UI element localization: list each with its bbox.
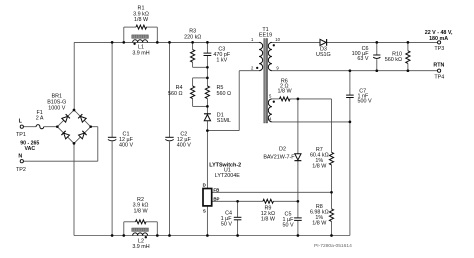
svg-text:560 kΩ: 560 kΩ [385,57,402,63]
svg-text:3.9 mH: 3.9 mH [132,50,149,56]
svg-text:D: D [203,183,206,188]
svg-text:N: N [18,153,22,159]
svg-text:400 V: 400 V [177,143,191,149]
svg-text:2 A: 2 A [36,116,44,122]
svg-text:S: S [203,209,206,214]
svg-text:BP: BP [213,196,219,201]
svg-text:400 V: 400 V [119,143,133,149]
svg-text:1/8 W: 1/8 W [312,164,327,170]
svg-text:1 kV: 1 kV [216,58,227,64]
svg-text:TP2: TP2 [16,167,26,173]
svg-text:VAC: VAC [25,146,36,152]
svg-text:560 Ω: 560 Ω [217,91,232,97]
svg-text:1000 V: 1000 V [48,106,65,112]
svg-text:BAV21W-7-F: BAV21W-7-F [263,154,295,160]
svg-text:BR1: BR1 [52,93,63,99]
svg-text:PI-7280a-051614: PI-7280a-051614 [314,243,352,249]
svg-text:1/8 W: 1/8 W [261,217,276,223]
svg-text:10: 10 [275,37,280,42]
svg-text:D2: D2 [279,147,286,153]
svg-text:560 Ω: 560 Ω [168,91,183,97]
svg-text:1/8 W: 1/8 W [133,208,148,214]
svg-text:180 mA: 180 mA [429,36,448,42]
svg-text:1/8 W: 1/8 W [278,89,293,95]
svg-text:LYT2004E: LYT2004E [215,173,240,179]
svg-text:TP1: TP1 [16,132,26,138]
svg-text:1/8 W: 1/8 W [134,17,149,23]
svg-text:EE19: EE19 [259,33,272,39]
svg-text:220 kΩ: 220 kΩ [184,34,201,40]
svg-text:63 V: 63 V [357,56,368,62]
svg-text:1/8 W: 1/8 W [312,220,327,226]
svg-text:3.9 mH: 3.9 mH [132,244,149,250]
svg-text:S1ML: S1ML [217,118,231,124]
svg-text:US1G: US1G [316,52,331,58]
svg-text:FB: FB [213,187,219,192]
svg-text:RTN: RTN [433,63,444,69]
svg-text:TP4: TP4 [434,75,444,81]
svg-text:50 V: 50 V [282,223,293,229]
svg-text:50 V: 50 V [221,221,232,227]
svg-text:500 V: 500 V [358,98,372,104]
svg-text:TP3: TP3 [434,46,444,52]
